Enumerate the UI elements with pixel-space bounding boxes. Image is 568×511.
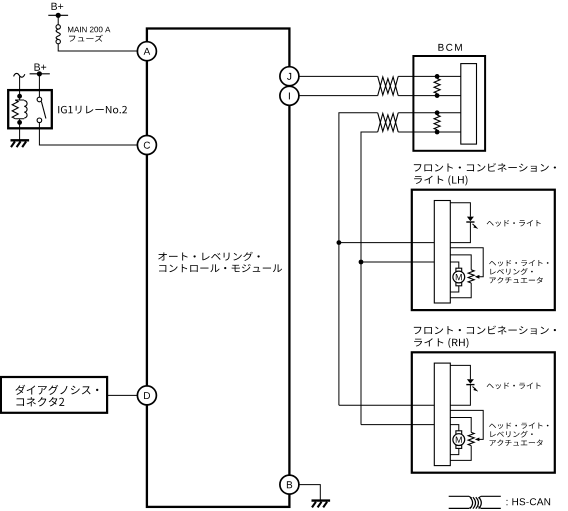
LH light headlight supply wire xyxy=(450,203,470,217)
legend text HS-CAN xyxy=(507,498,551,505)
wire relay coil to ground xyxy=(19,122,21,140)
wire node I to BCM (CAN) xyxy=(299,95,378,97)
node B xyxy=(280,475,299,494)
LH headlight label (JP) xyxy=(487,220,541,227)
RH light CAN-H pin wire xyxy=(339,404,434,406)
wire B+ to fuse xyxy=(57,15,59,24)
relay switch blade xyxy=(41,102,46,119)
RH light feedback resistor return wire xyxy=(450,446,471,461)
LH light feedback resistor return wire xyxy=(450,283,471,298)
LH actuator label line2 (JP) xyxy=(490,268,532,275)
diagnosis label line2 (JP) xyxy=(16,397,64,406)
BCM label xyxy=(438,44,461,51)
node J xyxy=(280,67,299,86)
B+ terminal junction dot xyxy=(56,13,61,18)
CAN-L junction dot at LH xyxy=(359,260,364,265)
RH light outer box xyxy=(412,352,555,472)
CAN-L wire BCM to lights xyxy=(361,132,461,262)
RH light CAN-L pin wire xyxy=(361,424,434,426)
RH light feedback resistor xyxy=(468,432,474,445)
LH light outer box xyxy=(412,190,555,310)
twisted pair symbol (module-BCM) xyxy=(378,76,399,95)
RH actuator label line1 (JP) xyxy=(489,423,548,429)
relay B+ junction dot xyxy=(37,71,42,76)
LH light headlight bulb xyxy=(467,217,474,222)
front combination light LH title line1 (JP) xyxy=(414,163,556,172)
module ground xyxy=(312,499,331,501)
fuse label fuse (JP) xyxy=(69,35,103,42)
front combination light RH title line2 (JP) xyxy=(414,338,468,348)
LH light feedback resistor xyxy=(468,270,474,283)
BCM box xyxy=(413,56,485,151)
LH actuator label line3 (JP) xyxy=(490,277,543,283)
fusible link MAIN 200 A xyxy=(56,25,60,29)
RH light leveling motor M xyxy=(456,431,462,434)
relay label IG1 relay No.2 (JP) xyxy=(58,106,127,114)
wire node J to BCM (CAN) xyxy=(299,75,378,77)
wire squiggle to relay coil xyxy=(19,77,21,97)
BCM connector xyxy=(461,64,477,145)
LH light connector xyxy=(434,201,450,304)
RH light feedback resistor feed wire xyxy=(450,418,471,433)
LH light wiper arrowhead xyxy=(475,275,480,279)
relay coil branch frame xyxy=(15,96,24,122)
RH actuator label line3 (JP) xyxy=(490,439,543,445)
auto leveling control module box xyxy=(147,29,290,507)
RH light headlight beam arrow xyxy=(473,387,476,390)
CAN-H wire BCM to lights xyxy=(339,113,461,243)
wire diagnosis to node D xyxy=(107,394,137,396)
wire node B to ground xyxy=(299,485,320,500)
front combination light RH title line1 (JP) xyxy=(414,326,556,335)
relay ground xyxy=(11,139,30,141)
relay switch top contact xyxy=(37,97,42,102)
node D xyxy=(137,386,156,405)
relay coil bottom junction dot xyxy=(17,120,22,125)
RH light wiper wire xyxy=(450,410,483,439)
CAN-H bus down to RH xyxy=(338,243,340,406)
B+ terminal bar xyxy=(48,14,68,16)
node A xyxy=(137,42,156,61)
wire fuse to node A xyxy=(58,44,137,51)
LH light feedback resistor feed wire xyxy=(450,255,471,270)
diagnosis connector 2 box xyxy=(1,377,107,413)
diagnosis label line1 (JP) xyxy=(15,385,98,395)
LH light wiper wire xyxy=(450,248,483,277)
LH light leveling motor M xyxy=(456,268,462,271)
accessory feed squiggle xyxy=(14,73,25,77)
LH actuator label line1 (JP) xyxy=(489,260,548,266)
RH light headlight return wire xyxy=(450,385,470,406)
CAN-H junction dot at LH xyxy=(337,240,342,245)
RH light connector xyxy=(434,363,450,466)
RH light wiper arrowhead xyxy=(475,438,480,442)
wire relay switch to node C xyxy=(39,122,137,145)
module label line1 (JP) xyxy=(158,252,259,261)
BCM termination resistor 2 xyxy=(434,115,440,130)
RH light headlight bulb xyxy=(467,379,474,384)
relay box IG1 No.2 xyxy=(8,90,52,128)
RH headlight label (JP) xyxy=(487,382,541,389)
fuse label MAIN 200 A xyxy=(68,27,110,33)
relay coil top junction dot xyxy=(17,94,22,99)
LH light motor feed wire xyxy=(450,262,459,268)
power label B+ (main fuse) xyxy=(52,3,64,10)
relay coil inductor xyxy=(24,101,27,118)
legend twisted pair wires xyxy=(449,496,501,508)
wire B+ to relay switch xyxy=(38,74,40,98)
relay coil resistor xyxy=(12,100,18,119)
LH light motor return wire xyxy=(450,286,459,292)
front combination light LH title line2 (JP) xyxy=(414,175,467,185)
CAN-L bus down to RH xyxy=(360,262,362,425)
RH light motor feed wire xyxy=(450,425,459,431)
RH light motor return wire xyxy=(450,448,459,454)
legend twisted pair symbol xyxy=(469,496,481,508)
LH light CAN-H pin wire xyxy=(339,242,434,244)
node C xyxy=(137,136,156,155)
LH light headlight return wire xyxy=(450,222,470,243)
BCM junction dots pair1 xyxy=(435,74,440,79)
module label line2 (JP) xyxy=(159,264,282,272)
RH actuator label line2 (JP) xyxy=(490,431,532,438)
BCM termination resistor 1 xyxy=(434,79,440,94)
power label B+ (relay) xyxy=(35,64,47,71)
relay switch bottom contact xyxy=(37,118,42,123)
RH light headlight supply wire xyxy=(450,365,470,379)
LH light headlight beam arrow xyxy=(473,224,476,227)
twisted pair symbol (BCM-lights) xyxy=(378,113,399,132)
relay B+ terminal bar xyxy=(30,73,50,75)
node I xyxy=(280,86,299,105)
BCM junction dots pair2 xyxy=(435,110,440,115)
LH light CAN-L pin wire xyxy=(361,261,434,263)
